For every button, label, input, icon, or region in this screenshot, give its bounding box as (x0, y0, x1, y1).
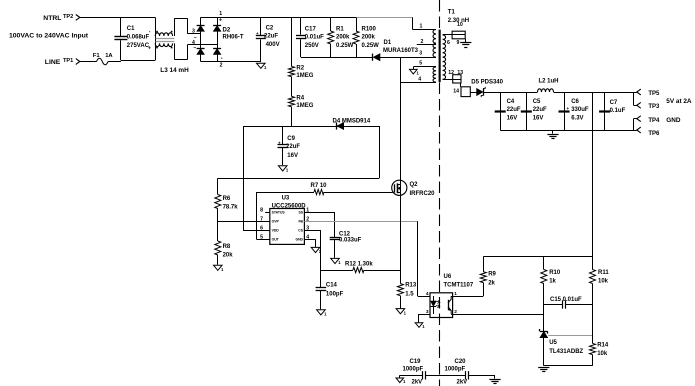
svg-text:78.7k: 78.7k (223, 204, 239, 210)
svg-text:2: 2 (220, 63, 223, 69)
svg-text:22uF: 22uF (507, 107, 521, 113)
svg-text:1A: 1A (105, 53, 113, 59)
svg-text:~: ~ (193, 46, 196, 52)
svg-text:1: 1 (219, 11, 222, 17)
svg-text:0.01uF: 0.01uF (305, 35, 324, 41)
svg-text:200k: 200k (336, 35, 350, 41)
svg-text:0.1uF: 0.1uF (610, 108, 626, 114)
svg-text:OUT: OUT (272, 238, 280, 242)
svg-text:R8: R8 (223, 244, 231, 250)
svg-text:13: 13 (457, 70, 463, 76)
svg-text:20k: 20k (223, 252, 234, 258)
svg-text:R6: R6 (223, 196, 231, 202)
svg-text:5V at 2A: 5V at 2A (666, 98, 692, 105)
svg-text:0.25W: 0.25W (336, 43, 354, 49)
svg-text:+: + (278, 140, 281, 145)
svg-text:R10: R10 (549, 270, 561, 276)
svg-text:1: 1 (420, 23, 423, 29)
svg-text:U5: U5 (549, 340, 557, 346)
svg-text:330uF: 330uF (571, 107, 589, 113)
svg-text:9: 9 (457, 40, 460, 46)
svg-text:C7: C7 (610, 100, 618, 106)
svg-text:L2 1uH: L2 1uH (539, 78, 559, 84)
svg-text:SS: SS (298, 211, 303, 215)
svg-text:C5: C5 (533, 99, 541, 105)
svg-text:U6: U6 (444, 274, 452, 280)
svg-text:16V: 16V (507, 116, 518, 122)
svg-text:R11: R11 (598, 270, 609, 276)
svg-text:UCC25600D: UCC25600D (272, 203, 307, 209)
svg-text:2k: 2k (488, 281, 495, 287)
svg-text:R9: R9 (488, 271, 496, 277)
svg-text:CS: CS (298, 229, 303, 233)
svg-text:R12 1.30k: R12 1.30k (345, 262, 373, 268)
svg-text:1MEG: 1MEG (296, 103, 313, 109)
svg-text:3: 3 (192, 29, 195, 35)
svg-text:~: ~ (194, 35, 197, 41)
svg-text:STATUS: STATUS (272, 211, 286, 215)
svg-text:L3 14 mH: L3 14 mH (160, 67, 189, 74)
svg-text:GND: GND (295, 238, 303, 242)
svg-text:TP5: TP5 (648, 91, 660, 97)
svg-text:R4: R4 (296, 96, 304, 102)
svg-text:D2: D2 (223, 27, 231, 33)
svg-text:-: - (221, 56, 223, 62)
svg-text:GND: GND (666, 117, 681, 124)
svg-text:C14: C14 (326, 283, 338, 289)
svg-text:LINE: LINE (45, 59, 61, 66)
svg-text:OVP: OVP (272, 220, 280, 224)
svg-text:16V: 16V (287, 153, 298, 159)
svg-text:TP1: TP1 (63, 58, 73, 64)
svg-text:+: + (148, 46, 151, 52)
svg-text:D4 MMSD914: D4 MMSD914 (333, 119, 371, 125)
svg-text:22uF: 22uF (286, 144, 300, 150)
svg-text:+: + (256, 31, 259, 36)
svg-text:+: + (567, 106, 570, 111)
svg-text:6.3V: 6.3V (571, 116, 583, 122)
svg-text:0.25W: 0.25W (362, 43, 380, 49)
svg-text:5: 5 (419, 61, 422, 67)
svg-text:2: 2 (454, 309, 457, 315)
svg-text:0.068uF: 0.068uF (127, 35, 150, 41)
svg-text:1.5: 1.5 (405, 291, 414, 297)
svg-text:R1: R1 (336, 26, 344, 32)
svg-text:+: + (219, 18, 222, 24)
svg-text:1000pF: 1000pF (445, 366, 466, 372)
svg-text:1: 1 (454, 291, 457, 297)
svg-text:275VAC: 275VAC (127, 43, 150, 49)
svg-text:VDD: VDD (272, 229, 280, 233)
svg-text:C17: C17 (305, 26, 317, 32)
svg-text:16V: 16V (533, 116, 544, 122)
svg-text:RH06-T: RH06-T (223, 35, 244, 41)
svg-text:C19: C19 (410, 359, 422, 365)
svg-text:FB: FB (298, 220, 303, 224)
svg-text:22uF: 22uF (264, 34, 278, 40)
svg-text:14: 14 (453, 88, 459, 94)
svg-text:U3: U3 (282, 196, 290, 202)
svg-text:Q2: Q2 (410, 182, 419, 188)
svg-text:4: 4 (418, 77, 421, 83)
svg-text:NTRL: NTRL (43, 15, 61, 22)
svg-text:4: 4 (426, 291, 429, 297)
svg-text:C12: C12 (339, 231, 351, 237)
svg-text:8: 8 (260, 208, 263, 214)
svg-text:D5 PDS340: D5 PDS340 (471, 79, 503, 85)
svg-text:R2: R2 (296, 66, 304, 72)
svg-text:12: 12 (448, 70, 454, 76)
svg-text:C4: C4 (507, 99, 515, 105)
svg-text:TP3: TP3 (648, 104, 660, 110)
svg-text:TP2: TP2 (63, 14, 73, 20)
svg-text:IRFRC20: IRFRC20 (410, 191, 436, 197)
svg-text:T1: T1 (448, 10, 456, 16)
svg-text:MURA160T3: MURA160T3 (383, 48, 419, 54)
svg-text:R7 10: R7 10 (311, 183, 328, 189)
svg-text:C15 0.01uF: C15 0.01uF (550, 297, 582, 303)
svg-text:10k: 10k (598, 279, 609, 285)
svg-text:2kV: 2kV (412, 380, 423, 386)
svg-text:1k: 1k (549, 279, 556, 285)
svg-text:100pF: 100pF (326, 292, 344, 298)
svg-text:R13: R13 (405, 283, 417, 289)
svg-text:1000pF: 1000pF (403, 366, 424, 372)
svg-text:6: 6 (447, 40, 450, 46)
svg-text:2: 2 (421, 39, 424, 45)
svg-text:2kV: 2kV (457, 380, 468, 386)
svg-text:400V: 400V (266, 42, 280, 48)
svg-text:0.033uF: 0.033uF (339, 238, 362, 244)
svg-text:200k: 200k (362, 35, 376, 41)
svg-text:TP6: TP6 (648, 131, 660, 137)
svg-text:7: 7 (260, 217, 263, 223)
svg-text:100VAC to 240VAC Input: 100VAC to 240VAC Input (9, 33, 89, 40)
svg-text:D1: D1 (384, 40, 392, 46)
svg-text:R100: R100 (362, 26, 377, 32)
svg-text:C9: C9 (287, 136, 295, 142)
svg-text:TP4: TP4 (648, 118, 660, 124)
svg-text:C1: C1 (127, 26, 135, 32)
svg-text:TCMT1107: TCMT1107 (444, 283, 474, 289)
svg-text:R14: R14 (597, 343, 609, 349)
svg-text:22uF: 22uF (533, 107, 547, 113)
svg-text:C20: C20 (455, 359, 467, 365)
svg-text:TL431ADBZ: TL431ADBZ (549, 349, 583, 355)
svg-text:3: 3 (419, 51, 422, 57)
svg-text:10: 10 (457, 22, 463, 28)
svg-text:C2: C2 (266, 25, 274, 31)
svg-text:1MEG: 1MEG (296, 73, 313, 79)
svg-text:250V: 250V (305, 43, 319, 49)
svg-text:10k: 10k (597, 351, 608, 357)
svg-text:C6: C6 (571, 99, 579, 105)
